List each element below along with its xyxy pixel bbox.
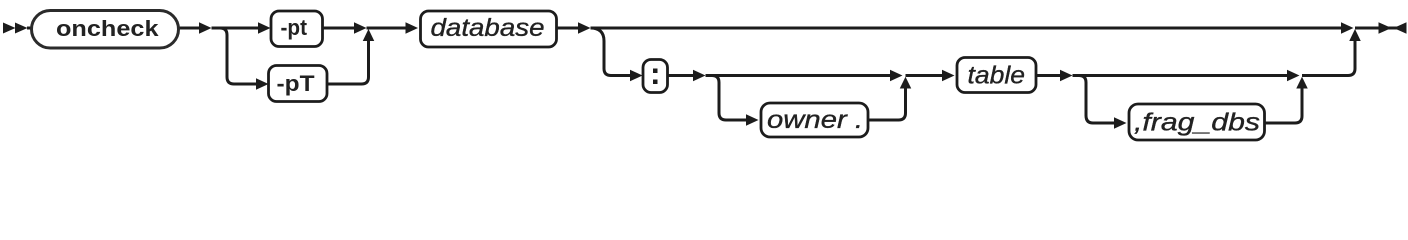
variable box database bbox=[421, 11, 557, 47]
wire row3 to frag box bbox=[1093, 122, 1114, 125]
start arrowhead 2 bbox=[15, 23, 28, 34]
wire row1 database to bypass split bbox=[557, 27, 579, 30]
arrowhead before table bbox=[942, 70, 955, 82]
arrowhead before colon bbox=[630, 70, 643, 82]
wire row1 after first arrow through split to -pt bbox=[212, 27, 259, 30]
arrowhead up merge from owner bbox=[900, 77, 912, 89]
wire frag box to riser bbox=[1265, 88, 1303, 123]
wire row1 to end bbox=[1355, 27, 1405, 30]
wire -pT row to its box bbox=[234, 83, 256, 86]
wire row1 -pt to merge bbox=[323, 27, 355, 30]
svg-text:database: database bbox=[431, 14, 545, 42]
wire row2 colon to owner split bbox=[668, 74, 694, 77]
wire frag split down to row3 bbox=[1079, 76, 1093, 124]
end arrowhead left bbox=[1394, 22, 1407, 34]
arrowhead row2 before owner merge bbox=[890, 70, 903, 82]
arrowhead row2 before frag merge bbox=[1287, 70, 1300, 82]
colon dot lower bbox=[653, 80, 658, 85]
arrowhead after oncheck bbox=[199, 22, 212, 34]
arrowhead before -pt bbox=[258, 22, 271, 34]
literal box colon bbox=[643, 60, 668, 93]
svg-text:owner .: owner . bbox=[767, 106, 863, 134]
wire row3 to owner box bbox=[726, 119, 746, 122]
wire row2 frag bypass bbox=[1073, 74, 1288, 77]
svg-text:table: table bbox=[968, 62, 1026, 90]
wire row2 to final riser bbox=[1302, 41, 1355, 76]
arrowhead up final merge bbox=[1349, 29, 1361, 41]
wire row1 oncheck to first arrow bbox=[27, 27, 199, 30]
wire row2 merge to table bbox=[906, 74, 943, 77]
arrowhead before -pT bbox=[256, 78, 269, 90]
svg-text:-pt: -pt bbox=[281, 15, 308, 40]
wire row1 long bypass bbox=[591, 27, 1342, 30]
wire row2 to colon bbox=[611, 74, 630, 77]
option box -pt bbox=[271, 11, 323, 47]
svg-text:,frag_dbs: ,frag_dbs bbox=[1134, 109, 1260, 137]
variable box frag_dbs bbox=[1129, 104, 1265, 140]
wire owner split down to row3 bbox=[712, 76, 726, 121]
arrowhead row1 before final merge bbox=[1341, 22, 1354, 34]
end arrowhead right bbox=[1379, 22, 1392, 34]
svg-text:-pT: -pT bbox=[277, 71, 316, 96]
wire split down after database to row2 bbox=[591, 28, 612, 76]
arrowhead up merge from frag bbox=[1296, 77, 1308, 89]
arrowhead row1 before pt merge bbox=[354, 22, 367, 34]
wire row1 merge to database bbox=[367, 27, 407, 30]
arrowhead up merge from -pT bbox=[363, 29, 375, 41]
arrowhead after colon bbox=[693, 70, 706, 82]
colon dot upper bbox=[653, 69, 658, 74]
variable box table bbox=[957, 58, 1036, 93]
arrowhead after database bbox=[578, 22, 591, 34]
option box -pT bbox=[269, 66, 328, 102]
arrowhead after table bbox=[1060, 70, 1073, 82]
keyword box oncheck bbox=[32, 11, 179, 49]
variable box owner bbox=[761, 103, 868, 137]
wire row2 owner bypass bbox=[706, 74, 891, 77]
arrowhead before database bbox=[406, 22, 419, 34]
start arrowhead 1 bbox=[3, 23, 16, 34]
svg-text:oncheck: oncheck bbox=[56, 16, 159, 41]
wire row2 table to frag split bbox=[1036, 74, 1060, 77]
arrowhead before frag_dbs bbox=[1114, 117, 1127, 129]
wire owner box to riser bbox=[868, 88, 906, 120]
arrowhead before owner bbox=[746, 114, 759, 126]
wire -pT box to merge riser bbox=[327, 41, 369, 84]
wire split down to -pT row bbox=[220, 28, 234, 84]
